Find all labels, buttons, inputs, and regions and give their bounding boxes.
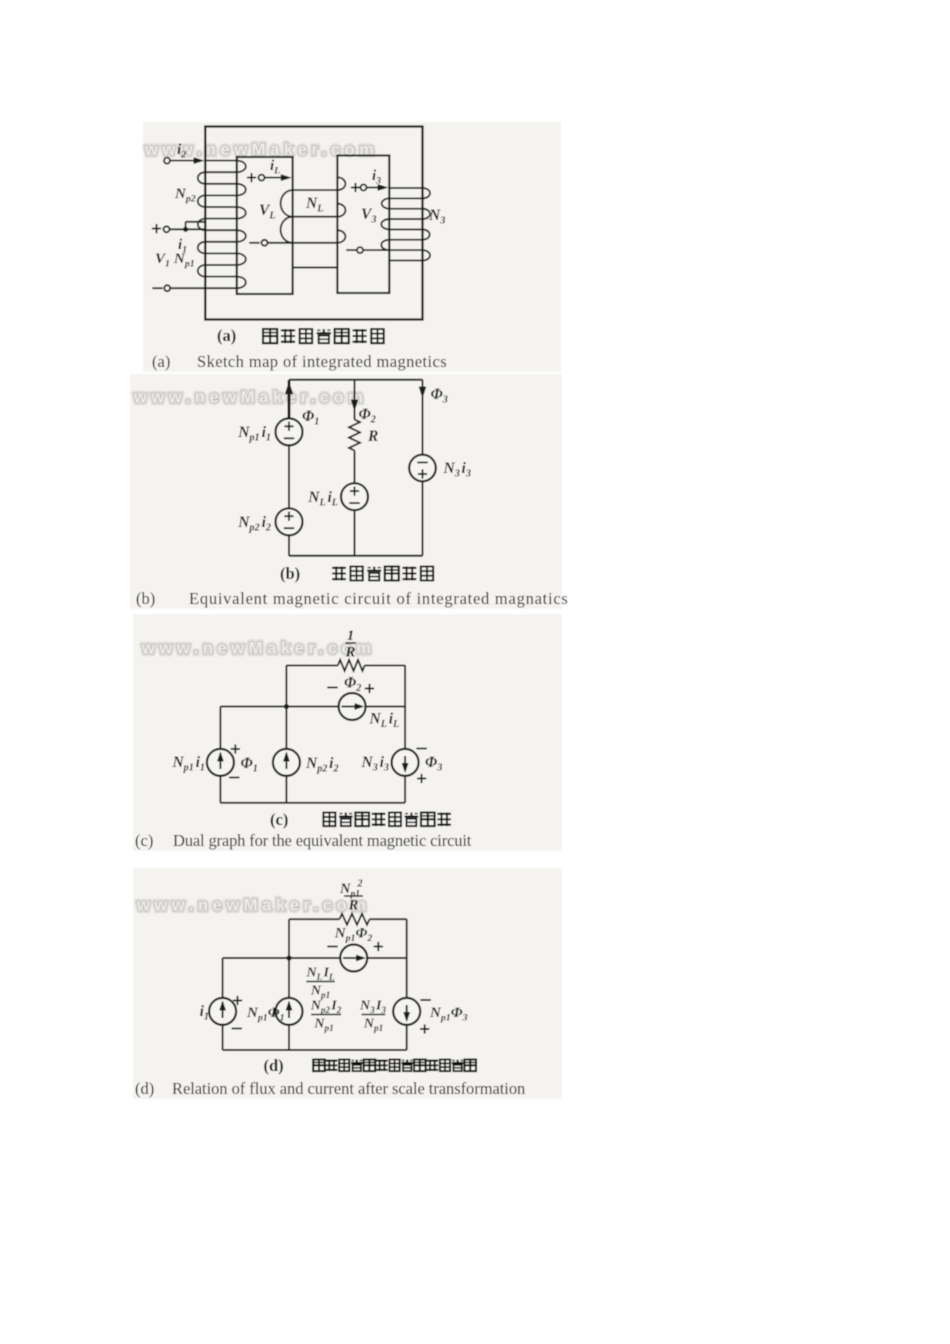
svg-text:(c): (c)	[270, 810, 288, 829]
svg-text:R: R	[344, 645, 355, 661]
svg-text:(c): (c)	[135, 831, 153, 850]
svg-text:(a): (a)	[152, 352, 170, 371]
svg-text:1: 1	[347, 628, 355, 644]
svg-text:www.newMaker.com: www.newMaker.com	[136, 897, 370, 915]
svg-text:Sketch map of integrated magne: Sketch map of integrated magnetics	[197, 352, 447, 371]
svg-text:www.newMaker.com: www.newMaker.com	[133, 389, 367, 407]
svg-text:(b): (b)	[136, 589, 155, 608]
svg-text:R: R	[367, 428, 378, 445]
svg-text:Equivalent magnetic circuit of: Equivalent magnetic circuit of integrate…	[189, 589, 569, 608]
svg-text:(a): (a)	[217, 326, 236, 345]
svg-text:Relation of flux and current a: Relation of flux and current after scale…	[172, 1079, 525, 1098]
svg-text:(d): (d)	[264, 1056, 284, 1075]
svg-text:2: 2	[357, 879, 363, 890]
svg-text:(d): (d)	[135, 1079, 154, 1098]
svg-text:R: R	[348, 898, 359, 914]
svg-text:Dual graph for the equivalent: Dual graph for the equivalent magnetic c…	[173, 831, 472, 850]
svg-text:www.newMaker.com: www.newMaker.com	[141, 640, 375, 658]
svg-text:(b): (b)	[280, 564, 300, 583]
